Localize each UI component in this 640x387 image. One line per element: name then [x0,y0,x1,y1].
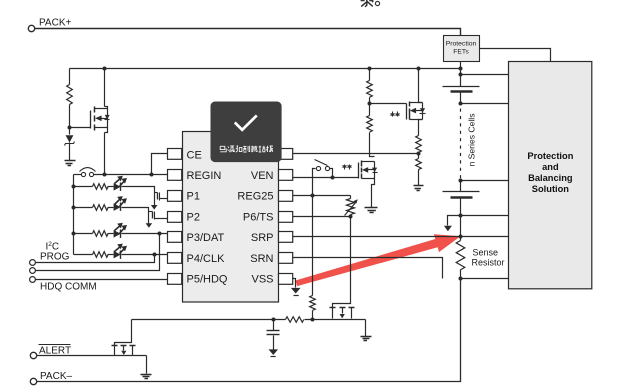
resistor R3 (LED row 2) [74,207,93,209]
LED D5 [114,244,127,259]
Protection and Balancing Solution block [509,62,592,289]
svg-text:P3/DAT: P3/DAT [187,232,225,244]
switch S1 (pushbutton on REGIN) [74,174,82,176]
svg-text:Resistor: Resistor [472,257,505,267]
wire SRP to sense resistor [293,236,461,238]
resistor R2 (LED row 1) [74,186,93,188]
wire ground-ref arrow tap [448,216,461,226]
wire VEN [293,177,359,179]
svg-text:REG25: REG25 [237,191,273,203]
node PACK+ terminal [28,25,34,31]
red annotation arrow pointing from VSS to sense resistor node [296,234,461,286]
wire ALERT to Q6 gate [37,355,147,357]
pin box SRP (right) [279,232,293,243]
dashed cell continuation [460,109,462,180]
wire Q5 source to R8 [419,120,423,136]
thermistor RT1 [347,199,355,215]
svg-text:SRN: SRN [250,253,273,265]
transistor Q2 (small FET to P1) [151,205,158,210]
wire rail to Q5 drain [419,69,423,103]
wire sense bottom tap to box [461,278,509,280]
wire Q6 source to ground [146,356,148,374]
pin box VEN (right) [279,170,293,181]
wire gate of Q1 [70,127,91,129]
wire SRN to sense resistor bottom [293,258,443,279]
wire gate of Q5 [370,103,407,105]
wire Q6 drain to comm line [115,320,132,346]
pin box P2 [168,212,182,223]
svg-text:ALERT: ALERT [39,345,71,356]
pin box REG25 (right) [279,191,293,202]
wire REG25 [293,195,351,197]
ground below Q4 [365,208,378,213]
svg-text:CE: CE [187,149,202,161]
wire P3/DAT to I2C line [36,234,160,271]
node gate divider junction [68,126,72,130]
battery cell 2 [460,181,462,192]
svg-text:REGIN: REGIN [187,170,222,182]
ground below Q7 [361,337,372,341]
node rail junctions [103,67,107,71]
node HDQ terminal [30,277,36,283]
svg-text:HDQ COMM: HDQ COMM [40,282,97,293]
ground below Q6 [141,375,152,379]
ground below zener [65,161,76,166]
node I2C terminal 1 [30,260,36,266]
node PACK- terminal [30,378,36,384]
wire CE [152,154,169,175]
tooltip: copied to clipboard [211,102,282,163]
wire comm line [132,319,286,321]
ground below R9 [414,186,424,191]
label ** for Q5 [391,112,395,117]
wire LED row3 to P3/DAT [122,233,169,235]
pin box P6/TS (right) [279,212,293,223]
LED D4 [114,223,127,238]
pin box P5/HDQ [168,274,182,285]
resistor R8 [416,136,422,153]
node ALERT terminal [30,352,36,358]
wire Protection FETs to top of cell stack [460,62,462,87]
pin box VSS (right) [279,274,293,285]
resistor R4 (LED row 3) [74,233,93,235]
svg-text:VSS: VSS [251,274,273,286]
LED D2 [114,176,127,191]
pin box CE [168,149,182,160]
svg-text:PROG: PROG [40,252,70,263]
wire Q4 source to ground [372,179,375,208]
pin box P3/DAT [168,232,182,243]
wire REGIN [94,174,169,176]
svg-text:Balancing: Balancing [528,173,573,183]
transistor Q6 (ALERT FET) [112,346,136,356]
transistor Q7 (comm FET) [330,308,355,319]
pin box SRN (right) [279,253,293,264]
pin box P4/CLK [168,253,182,264]
svg-text:P4/CLK: P4/CLK [187,253,226,265]
battery cell 1 [443,86,480,88]
capacitor C1 [273,320,275,331]
wire LED bus [73,175,75,255]
pin box NC (right) [279,149,293,160]
svg-text:PACK–: PACK– [40,371,72,382]
wire cell tap2 to box [461,180,509,182]
svg-text:P6/TS: P6/TS [243,211,274,223]
wire top-right pin to divider junction [293,153,419,155]
wire Q1 source down to REGIN line [104,133,106,175]
svg-text:and: and [542,162,559,172]
pin box P1 [168,191,182,202]
switch S2 on VEN [316,166,320,170]
node I2C terminal 2 [30,268,36,274]
wire sense top tap to box [461,215,509,217]
wire S2 right to VEN [330,169,333,178]
transistor Q5 (cell-top switch FET) [407,102,426,120]
svg-text:Sense: Sense [473,248,499,258]
LED D3 [114,196,127,211]
resistor R9 [416,159,422,170]
resistor R10 (REG25 pull to comm) [310,296,316,311]
svg-text:P5/HDQ: P5/HDQ [187,274,228,286]
zener diode D1 [66,135,74,142]
svg-text:Protection: Protection [446,41,477,48]
wire P4/CLK to I2C line [36,255,155,263]
resistor R7 (divider lower) [367,116,373,133]
wire PACK+ rail to Protection FETs [35,29,461,36]
resistor R11 (comm series) [286,317,304,323]
ground arrow at VSS [291,288,301,294]
svg-text:VEN: VEN [251,170,274,182]
transistor Q3 (small FET to P2) [146,223,153,228]
wire LED row4 to P4/CLK [122,254,169,256]
wire Protection FETs to Protection/Balancing box [480,49,551,62]
transistor Q1 (PFET with body diode) [104,69,106,107]
wire LED row2 to Q3 [122,208,149,224]
svg-text:Protection: Protection [527,151,573,161]
resistor R5 (LED row 4) [74,254,93,256]
wire P6/TS [293,216,351,218]
wire rail tap to balancing box [461,74,509,76]
svg-text:P2: P2 [187,211,200,223]
wire LED row1 to Q2 [122,187,155,206]
partial Chinese text line (cropped) [361,0,380,7]
wire HDQ COMM to P5/HDQ [36,279,169,281]
wire PACK- rail [37,279,461,382]
pin box REGIN [168,170,182,181]
svg-text:PACK+: PACK+ [39,18,71,29]
wire VSS stub to ground [293,279,296,288]
resistor R1 (PACK+ pull-down to zener) [69,69,71,85]
svg-text:FETs: FETs [453,49,469,56]
op-amp U1 gas gauge IC body [183,132,279,303]
svg-text:P1: P1 [187,191,200,203]
label ** for Q4 [343,165,347,170]
wire Q7 source to ground [365,320,367,337]
svg-text:SRP: SRP [251,232,274,244]
ground arrow below C1 [269,349,279,355]
Protection FETs block [444,36,480,62]
wire S2 left to REG25 [313,169,316,296]
svg-text:n Series Cells: n Series Cells [466,113,476,166]
transistor Q4 (VEN FET) [359,161,378,179]
wire cell tap to box [461,103,509,105]
sense resistor RS [460,237,462,241]
wire SRP tap to box [461,236,509,238]
svg-text:Solution: Solution [532,184,569,194]
resistor R6 (divider upper) [369,69,371,81]
wire divider to Q4 drain [370,133,375,157]
wire thermistor junction down to Q7 [333,217,351,308]
wire main positive rail [70,68,461,70]
